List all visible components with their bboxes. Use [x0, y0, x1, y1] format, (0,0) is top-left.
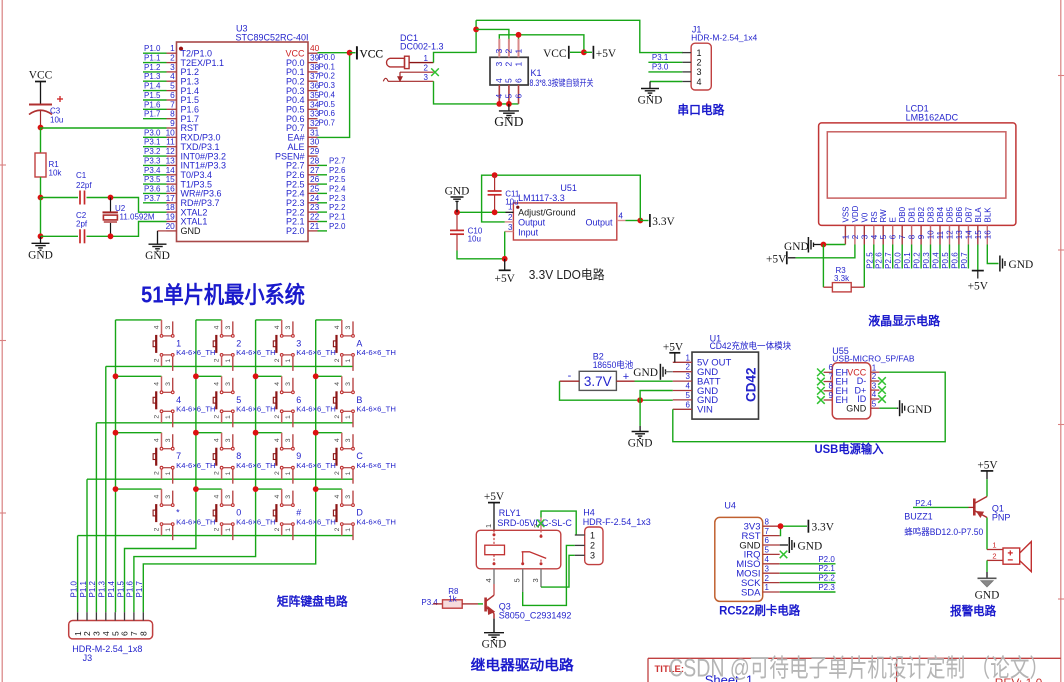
wire column bus 1	[115, 320, 117, 612]
node VCC junction	[347, 50, 353, 56]
wire row3 top seg col2	[196, 432, 222, 434]
svg-text:C: C	[356, 451, 363, 461]
svg-text:+5V: +5V	[968, 280, 989, 292]
power flag +5V (LCD BLA)	[968, 245, 989, 293]
svg-text:P3.6: P3.6	[144, 184, 161, 193]
svg-text:3: 3	[765, 564, 770, 573]
ground (K1)	[494, 104, 523, 129]
wire row1 top seg col3	[256, 319, 282, 321]
svg-text:E: E	[889, 217, 898, 222]
svg-text:P2.6: P2.6	[875, 252, 884, 269]
capacitor C10 10u	[450, 212, 483, 250]
svg-text:2: 2	[154, 527, 161, 531]
node K1 pin1	[516, 32, 522, 38]
node bus4/row2	[313, 373, 319, 379]
wire row4 top seg col2	[196, 488, 222, 490]
svg-text:K4-6×6_TH: K4-6×6_TH	[176, 461, 216, 470]
svg-text:2: 2	[154, 358, 161, 362]
U3 pin 2 (T2EX/P1.1)	[167, 53, 225, 68]
svg-text:3: 3	[531, 578, 540, 582]
wire / net label P1.4	[143, 82, 167, 91]
svg-text:2: 2	[334, 358, 341, 362]
svg-text:P0.7: P0.7	[960, 252, 969, 269]
svg-text:3: 3	[872, 381, 877, 390]
wire row1 top seg col2	[196, 319, 222, 321]
wire / net label P1.1	[143, 54, 167, 63]
power flag 3.3V (RC522)	[808, 520, 834, 534]
svg-text:GND: GND	[633, 367, 658, 379]
svg-text:6: 6	[765, 536, 770, 545]
svg-text:P2.1: P2.1	[329, 213, 346, 222]
power flag +5V (alarm)	[977, 460, 998, 480]
svg-text:1: 1	[992, 541, 996, 550]
nodes K1 bottom pins	[496, 101, 502, 107]
svg-text:3: 3	[165, 326, 172, 330]
svg-text:5: 5	[765, 546, 770, 555]
svg-text:+5V: +5V	[484, 491, 505, 503]
U3 pin 6 (P1.5)	[167, 90, 200, 105]
svg-text:6: 6	[686, 400, 691, 409]
wire DC1 pin1 up to rail	[434, 20, 477, 62]
svg-text:1: 1	[345, 528, 352, 532]
wire / net label P3.1	[143, 138, 167, 147]
svg-text:3: 3	[285, 326, 292, 330]
wire / net label P3.5	[143, 175, 167, 184]
wire / net label P1.0	[143, 44, 167, 53]
U3 pin 19 (XTAL1)	[166, 212, 208, 227]
svg-text:10u: 10u	[468, 235, 481, 244]
node crystal bottom	[108, 233, 114, 239]
wire / net label P0.4 (LCD)	[932, 245, 941, 269]
no-connect X marks U55 right	[878, 377, 886, 403]
svg-text:3: 3	[590, 551, 595, 561]
svg-text:STC89C52RC-40I: STC89C52RC-40I	[236, 33, 309, 43]
U3 pin 33 (P0.6)	[286, 109, 320, 124]
svg-text:5: 5	[686, 391, 691, 400]
svg-text:#: #	[296, 508, 301, 518]
svg-text:6: 6	[829, 363, 834, 372]
svg-text:U4: U4	[724, 501, 736, 511]
svg-text:S8050_C2931492: S8050_C2931492	[499, 610, 572, 620]
U3 pin 34 (P0.5)	[286, 99, 320, 114]
svg-text:4: 4	[154, 495, 161, 499]
svg-text:K4-6×6_TH: K4-6×6_TH	[356, 405, 396, 414]
wire / net label P2.0	[318, 222, 347, 231]
svg-text:-: -	[568, 370, 572, 382]
svg-text:8: 8	[236, 451, 241, 461]
U3 pin 8 (P1.7)	[167, 109, 200, 124]
svg-text:LMB162ADC: LMB162ADC	[906, 112, 959, 122]
wire down left	[40, 198, 42, 237]
svg-text:RC522刷卡电路: RC522刷卡电路	[719, 603, 801, 618]
svg-text:P3.0: P3.0	[652, 63, 669, 72]
U3 pin 13 (INT1#/P3.3)	[166, 155, 226, 170]
svg-text:K4-6×6_TH: K4-6×6_TH	[236, 461, 276, 470]
U3 pin 25 (P2.4)	[286, 183, 320, 198]
IC U3 STC89C52RC-40I	[177, 24, 309, 242]
svg-text:P1.0: P1.0	[69, 580, 78, 597]
ground (U3 pin20)	[145, 231, 170, 262]
transistor Q1 PNP	[969, 497, 1011, 523]
svg-text:4: 4	[334, 438, 341, 442]
svg-text:P1.6: P1.6	[126, 580, 135, 597]
svg-text:J3: J3	[83, 653, 93, 663]
svg-text:7: 7	[176, 451, 181, 461]
node bus4/row3	[313, 430, 319, 436]
pushbutton 1 K4-6x6_TH	[153, 320, 216, 371]
pushbutton 9 K4-6x6_TH	[273, 433, 336, 484]
U3 pin 10 (RXD/P3.0)	[166, 127, 221, 142]
wire column bus 4	[143, 320, 315, 612]
wire R1 to node	[40, 177, 42, 198]
svg-text:1: 1	[590, 530, 595, 540]
svg-text:Input: Input	[518, 227, 539, 237]
no-connect X relay pin2	[537, 520, 545, 528]
svg-text:K4-6×6_TH: K4-6×6_TH	[236, 405, 276, 414]
svg-text:2: 2	[334, 471, 341, 475]
svg-text:RLY1: RLY1	[499, 508, 521, 518]
pushbutton 0 K4-6x6_TH	[213, 489, 276, 540]
svg-text:P0.0: P0.0	[319, 53, 336, 62]
U3 pin 32 (P0.7)	[286, 118, 320, 133]
svg-text:P3.5: P3.5	[144, 175, 161, 184]
svg-text:P1.3: P1.3	[144, 72, 161, 81]
svg-text:GND: GND	[28, 249, 53, 261]
wire / net label P2.5 (LCD)	[865, 245, 874, 269]
svg-text:1: 1	[484, 524, 493, 528]
wire column bus 2	[125, 320, 196, 612]
wire J1 pin4 to ground	[650, 81, 682, 83]
svg-text:蜂鸣器BD12.0-P7.50: 蜂鸣器BD12.0-P7.50	[904, 526, 983, 537]
U3 pin 18 (XTAL2)	[166, 202, 208, 217]
U3 pin 23 (P2.2)	[286, 202, 320, 217]
wire / net label P0.2 (LCD)	[913, 245, 922, 269]
svg-text:报警电路: 报警电路	[950, 603, 997, 618]
svg-text:P3.0: P3.0	[144, 128, 161, 137]
svg-text:4: 4	[697, 77, 702, 87]
svg-text:Output: Output	[585, 218, 613, 228]
svg-text:1: 1	[225, 415, 232, 419]
svg-text:3.3V LDO电路: 3.3V LDO电路	[529, 267, 605, 282]
svg-text:2: 2	[504, 49, 514, 54]
svg-text:3: 3	[860, 234, 869, 239]
wire / net label P3.3	[143, 156, 167, 165]
wire ground run to pin1	[457, 211, 506, 213]
svg-text:1: 1	[345, 359, 352, 363]
svg-text:P2.2: P2.2	[329, 203, 346, 212]
wire / net label P0.3 (LCD)	[922, 245, 931, 269]
svg-text:2: 2	[765, 574, 770, 583]
node RC522 3V3	[778, 523, 784, 529]
svg-text:P1.5: P1.5	[116, 580, 125, 597]
wire / net label P0.7 (LCD)	[960, 245, 969, 269]
buzzer BUZZ1	[987, 541, 1031, 572]
svg-text:GND: GND	[975, 590, 1000, 602]
node 3.3V	[637, 218, 643, 224]
U3 pin 30 (ALE)	[287, 137, 319, 152]
svg-text:5: 5	[513, 578, 522, 582]
svg-text:P1.3: P1.3	[98, 580, 107, 597]
wire / net label P2.6 (LCD)	[875, 245, 884, 269]
svg-text:K4-6×6_TH: K4-6×6_TH	[356, 461, 396, 470]
svg-text:4: 4	[176, 395, 181, 405]
wire row 4 line	[78, 535, 353, 537]
svg-text:3: 3	[165, 382, 172, 386]
power flag +5V (relay)	[484, 491, 505, 530]
svg-text:10u: 10u	[50, 116, 63, 125]
svg-text:K4-6×6_TH: K4-6×6_TH	[176, 348, 216, 357]
wire row1 top seg col4	[316, 319, 342, 321]
wire row4 top seg col1	[116, 488, 162, 490]
svg-text:P0.4: P0.4	[932, 252, 941, 269]
svg-text:P2.5: P2.5	[865, 252, 874, 269]
svg-text:1: 1	[176, 338, 181, 348]
svg-text:3: 3	[225, 495, 232, 499]
svg-text:2: 2	[274, 358, 281, 362]
svg-text:3: 3	[508, 223, 513, 232]
svg-text:4: 4	[765, 555, 770, 564]
U3 pin 31 (EA#)	[287, 127, 319, 142]
pushbutton 5 K4-6x6_TH	[213, 376, 276, 427]
svg-text:A: A	[356, 338, 362, 348]
wire / net label P2.6	[318, 166, 347, 175]
U3 pin 14 (T0/P3.4)	[166, 165, 212, 180]
capacitor C11 10u	[488, 175, 520, 212]
wire / net label P1.6	[143, 100, 167, 109]
svg-text:P2.0: P2.0	[286, 226, 305, 236]
node RST junction	[38, 125, 44, 131]
wire / net label P2.7	[318, 156, 347, 165]
wire C1 to XTAL2	[87, 197, 111, 199]
ground flag (LCD VSS)	[784, 237, 823, 253]
svg-text:D: D	[356, 508, 363, 518]
pushbutton A K4-6x6_TH	[333, 320, 396, 371]
wire V0 contrast loop	[822, 245, 824, 288]
svg-text:VCC: VCC	[360, 49, 383, 61]
U3 pin 5 (P1.4)	[167, 81, 200, 96]
svg-text:1: 1	[285, 471, 292, 475]
svg-text:11: 11	[936, 230, 945, 239]
svg-text:3: 3	[494, 49, 504, 54]
wire row1 top seg col1	[116, 319, 162, 321]
svg-text:K4-6×6_TH: K4-6×6_TH	[296, 517, 336, 526]
wire / net label P2.4	[913, 499, 969, 508]
svg-text:3: 3	[686, 372, 691, 381]
svg-text:+5V: +5V	[596, 48, 617, 60]
svg-text:HDR-F-2.54_1x3: HDR-F-2.54_1x3	[583, 517, 651, 527]
wire branch to K1 pin2	[476, 29, 509, 42]
wire row 2 to J3	[95, 423, 97, 612]
connector J1 HDR-M-2.54_1x4	[682, 25, 757, 91]
svg-text:20: 20	[166, 221, 176, 231]
wire row2 top seg col3	[256, 375, 282, 377]
node crystal top	[108, 195, 114, 201]
svg-text:2: 2	[214, 415, 221, 419]
svg-text:3: 3	[296, 338, 301, 348]
wire / net label P3.0	[648, 63, 682, 72]
svg-text:1k: 1k	[448, 594, 457, 603]
svg-text:4: 4	[494, 78, 504, 83]
svg-text:2: 2	[214, 358, 221, 362]
svg-text:2pf: 2pf	[76, 220, 88, 229]
svg-text:GND: GND	[798, 541, 823, 553]
svg-text:4: 4	[214, 495, 221, 499]
node bus2/row4	[193, 486, 199, 492]
wire / net label P2.5	[318, 175, 347, 184]
wire column bus 3	[134, 320, 256, 612]
node bus3/row4	[253, 486, 259, 492]
svg-text:GND: GND	[482, 639, 507, 651]
svg-text:1: 1	[285, 415, 292, 419]
U3 pin 38 (P0.1)	[286, 62, 320, 77]
svg-text:4: 4	[214, 325, 221, 329]
svg-text:P3.1: P3.1	[652, 53, 669, 62]
svg-text:3: 3	[285, 382, 292, 386]
svg-text:11.0592M: 11.0592M	[120, 213, 155, 222]
wire / net label P2.1 (RC522)	[780, 564, 836, 573]
node bus2/row3	[193, 430, 199, 436]
svg-text:DB5: DB5	[946, 206, 955, 222]
wire / net label P2.0 (RC522)	[780, 555, 836, 564]
power flag +5V (tie)	[584, 46, 617, 60]
resistor R1 10k	[35, 153, 62, 178]
svg-text:1: 1	[165, 359, 172, 363]
svg-text:4: 4	[274, 325, 281, 329]
svg-text:4: 4	[154, 382, 161, 386]
wire / net label P3.1	[648, 53, 682, 62]
ground flag (CD42 pin2)	[633, 364, 673, 380]
svg-text:K4-6×6_TH: K4-6×6_TH	[356, 348, 396, 357]
svg-text:VSS: VSS	[841, 206, 850, 222]
svg-text:4: 4	[484, 578, 493, 582]
net label P0.5	[319, 100, 336, 109]
resistor R8 1k	[443, 587, 484, 608]
wire / net label P2.1	[318, 213, 347, 222]
svg-text:4: 4	[154, 325, 161, 329]
U3 pin 27 (P2.6)	[286, 165, 320, 180]
net label P0.4	[319, 91, 336, 100]
svg-text:8.3*8.3按键自锁开关: 8.3*8.3按键自锁开关	[530, 77, 594, 88]
svg-text:P0.7: P0.7	[319, 119, 336, 128]
svg-text:液晶显示电路: 液晶显示电路	[868, 313, 941, 328]
svg-text:8: 8	[765, 517, 770, 526]
connector U55 USB-MICRO_5P/FAB	[824, 346, 915, 419]
wire / net label P2.3 (RC522)	[780, 583, 836, 592]
U3 pin 36 (P0.3)	[286, 81, 320, 96]
svg-text:5: 5	[504, 78, 514, 83]
svg-text:2: 2	[274, 471, 281, 475]
wire row 1 to J3	[105, 366, 107, 612]
pushbutton 7 K4-6x6_TH	[153, 433, 216, 484]
svg-text:4: 4	[154, 438, 161, 442]
svg-text:BLA: BLA	[974, 207, 983, 223]
svg-text:2: 2	[236, 338, 241, 348]
svg-text:4: 4	[872, 390, 877, 399]
svg-text:5: 5	[872, 399, 877, 408]
svg-text:+5V: +5V	[495, 273, 516, 285]
wire row3 top seg col3	[256, 432, 282, 434]
svg-text:USB电源输入: USB电源输入	[815, 441, 884, 456]
svg-text:P2.4: P2.4	[915, 499, 932, 508]
wire row3 top seg col1	[116, 432, 162, 434]
U3 pin 21 (P2.0)	[286, 221, 320, 236]
net label P0.6	[319, 109, 336, 118]
node VCC/+5V tie	[581, 49, 587, 55]
svg-text:4: 4	[870, 234, 879, 239]
net label P3.4 / wire	[421, 598, 442, 607]
svg-text:Adjust/Ground: Adjust/Ground	[518, 208, 576, 218]
svg-text:1: 1	[697, 48, 702, 58]
svg-text:K4-6×6_TH: K4-6×6_TH	[296, 461, 336, 470]
svg-text:P2.7: P2.7	[329, 156, 346, 165]
module U4 RC522	[715, 501, 780, 602]
svg-text:2: 2	[504, 62, 514, 67]
ground (left)	[28, 236, 53, 261]
regulator U51 LM1117-3.3	[505, 183, 626, 240]
net label P0.7	[319, 119, 336, 128]
net label P0.0	[319, 53, 336, 62]
svg-text:SDA: SDA	[741, 587, 761, 598]
wire DC1 pin3 to K1 bottom	[434, 81, 519, 104]
svg-text:3.3V: 3.3V	[652, 216, 675, 228]
wire relay pin2 to H4 pin1	[541, 511, 576, 535]
svg-text:22pf: 22pf	[76, 181, 92, 190]
svg-text:5: 5	[504, 94, 514, 99]
node bus2/row2	[193, 373, 199, 379]
wire VCC pin40 to EA#	[318, 53, 350, 138]
node battery gnd	[637, 397, 643, 403]
svg-text:P1.4: P1.4	[107, 580, 116, 597]
svg-text:GND: GND	[494, 114, 523, 129]
svg-text:2: 2	[154, 471, 161, 475]
svg-text:K4-6×6_TH: K4-6×6_TH	[236, 517, 276, 526]
node bus3/row2	[253, 373, 259, 379]
node bus1/row4	[113, 486, 119, 492]
svg-text:4: 4	[494, 94, 504, 99]
net label P0.1	[319, 62, 336, 71]
svg-text:P2.6: P2.6	[329, 166, 346, 175]
wire Q1 emitter to buzzer	[986, 518, 988, 550]
svg-text:P2.3: P2.3	[818, 583, 835, 592]
svg-text:10k: 10k	[49, 169, 63, 178]
wire / net label P0.6 (LCD)	[950, 245, 959, 269]
svg-text:P0.4: P0.4	[319, 91, 336, 100]
svg-text:9: 9	[296, 451, 301, 461]
capacitor C2 2pf	[76, 211, 88, 243]
svg-text:RS: RS	[870, 211, 879, 222]
connector H4 HDR-F-2.54_1x3	[575, 508, 651, 565]
svg-text:*: *	[176, 508, 180, 518]
svg-text:2: 2	[274, 527, 281, 531]
wire / net label P2.2 (RC522)	[780, 574, 836, 583]
svg-text:GND: GND	[628, 438, 653, 450]
wire gnd to pin1	[823, 244, 845, 246]
svg-text:GND: GND	[907, 404, 932, 416]
svg-text:2: 2	[508, 213, 513, 222]
wire row 4 to J3	[77, 536, 79, 613]
capacitor C3 10u (polarized)	[29, 96, 63, 128]
svg-text:P0.2: P0.2	[319, 72, 336, 81]
wire RST	[41, 127, 167, 129]
svg-text:3: 3	[285, 495, 292, 499]
svg-text:1: 1	[225, 528, 232, 532]
svg-text:1: 1	[686, 353, 691, 362]
svg-text:5: 5	[879, 234, 888, 239]
svg-text:P1.1: P1.1	[144, 54, 161, 63]
node +5V input	[502, 256, 508, 262]
DC jack DC1 DC002-1.3	[383, 33, 443, 82]
svg-text:C3: C3	[50, 107, 61, 116]
